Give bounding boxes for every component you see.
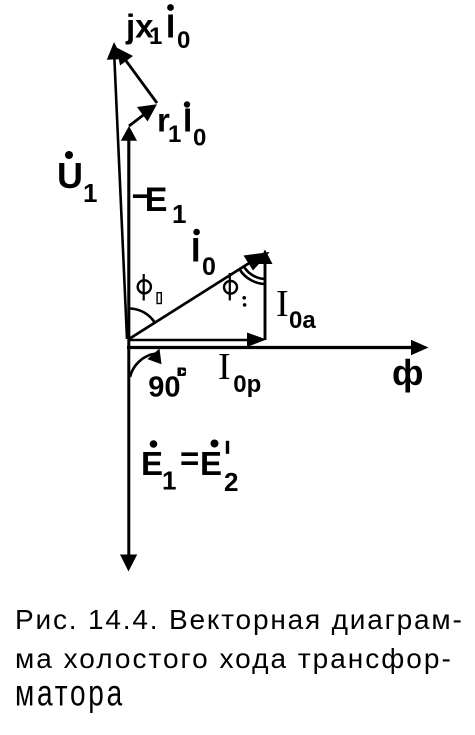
label I0a: [276, 283, 316, 334]
arc phi at I0 tip (double): [240, 270, 266, 285]
svg-text:E: E: [141, 445, 163, 482]
svg-text:0a: 0a: [289, 307, 316, 334]
label phi2 with tofu box: [138, 274, 162, 304]
label 90 deg: [148, 368, 186, 404]
label I0: [191, 229, 216, 281]
caption line 1: [15, 606, 464, 634]
vector I0a: [258, 250, 273, 341]
label jx1I0: [125, 4, 190, 54]
caption line 2: [15, 645, 453, 673]
label U1: [57, 151, 97, 208]
svg-text:E: E: [200, 445, 222, 482]
vector E1 down: [120, 339, 137, 572]
arc phi2: [130, 309, 155, 323]
vector U1: [107, 42, 127, 339]
svg-text:1: 1: [149, 23, 162, 50]
svg-text:I: I: [166, 8, 175, 45]
svg-text:=: =: [180, 440, 199, 477]
vector -E1: [121, 126, 137, 339]
svg-text:1: 1: [172, 199, 186, 229]
svg-text:90: 90: [148, 372, 180, 404]
svg-text:E: E: [145, 181, 168, 219]
vector r1I0: [129, 104, 157, 126]
axis Phi: [127, 340, 429, 355]
svg-text:0: 0: [202, 253, 216, 281]
caption line 3: [15, 675, 125, 712]
arc 90 deg: [130, 349, 162, 378]
label E1 = E2': [141, 440, 238, 497]
vector I0: [129, 252, 270, 339]
vector jx1I0: [117, 48, 158, 104]
svg-text:1: 1: [83, 178, 97, 208]
label I0p: [218, 346, 261, 398]
svg-text:1: 1: [168, 121, 181, 148]
svg-text:I: I: [276, 283, 289, 325]
svg-text:1: 1: [162, 466, 176, 496]
vector I0p: [129, 333, 267, 348]
svg-text:U: U: [57, 155, 83, 196]
label r1I0: [157, 101, 206, 151]
svg-text:ф: ф: [392, 352, 424, 393]
label -E1: [132, 178, 187, 230]
svg-text:2: 2: [224, 467, 238, 497]
label phi with colon: [224, 273, 246, 307]
svg-text:0: 0: [177, 27, 190, 54]
svg-text:I: I: [218, 346, 231, 388]
svg-text:I: I: [191, 232, 200, 270]
svg-text:0p: 0p: [233, 371, 261, 398]
svg-text:0: 0: [193, 125, 206, 152]
